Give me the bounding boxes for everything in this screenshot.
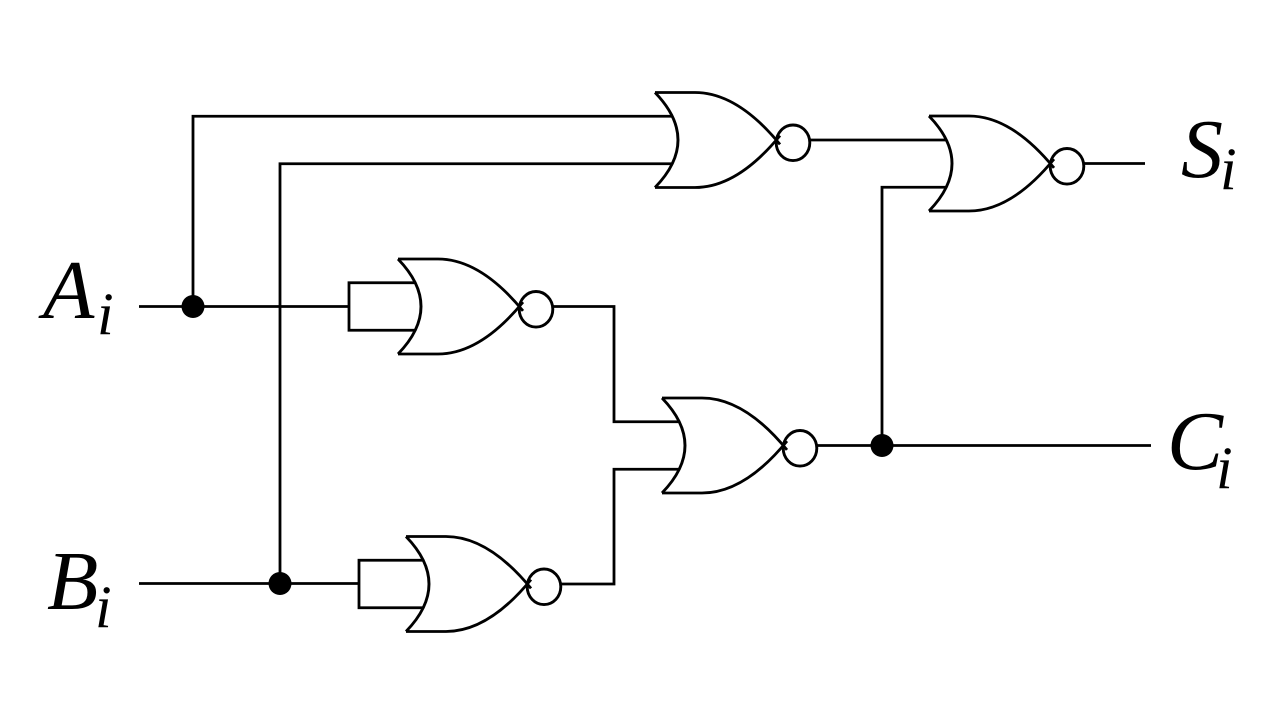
svg-text:i: i xyxy=(1220,136,1237,202)
wire: G1 output to G2 top input xyxy=(810,139,947,142)
wire: node A riser to gate G1 top input xyxy=(193,116,674,306)
svg-text:i: i xyxy=(97,281,114,347)
svg-text:B: B xyxy=(47,535,98,628)
NOR gate G5 (inverter for B) xyxy=(406,537,561,632)
wire: G2 output to S_i xyxy=(1084,162,1145,165)
wire: node B riser to gate G1 bottom input xyxy=(280,164,674,584)
svg-text:i: i xyxy=(95,574,112,640)
NOR gate G2 (output S_i) xyxy=(929,116,1084,211)
NOR gate G4 (output C_i) xyxy=(662,398,817,493)
svg-text:S: S xyxy=(1181,103,1223,196)
junction: node C xyxy=(871,434,894,457)
NOR gate G3 (inverter for A) xyxy=(398,259,553,354)
wire: node C riser to G2 bottom input xyxy=(882,187,947,445)
wire: G3 output down to G4 top input xyxy=(553,307,680,422)
input tie box of gate G5 xyxy=(359,560,435,608)
NOR gate G1 (inputs A,B) xyxy=(655,93,810,188)
junction: node B xyxy=(269,572,292,595)
svg-text:A: A xyxy=(38,244,95,337)
wire: B_i input to tie box xyxy=(139,582,360,585)
wire: A_i input to tie box xyxy=(139,305,350,308)
wire: G5 output up to G4 bottom input xyxy=(561,469,680,584)
svg-text:i: i xyxy=(1216,435,1233,501)
junction: node A xyxy=(182,295,205,318)
wire: G4 output to C_i xyxy=(817,444,1151,447)
input tie box of gate G3 xyxy=(349,283,430,331)
